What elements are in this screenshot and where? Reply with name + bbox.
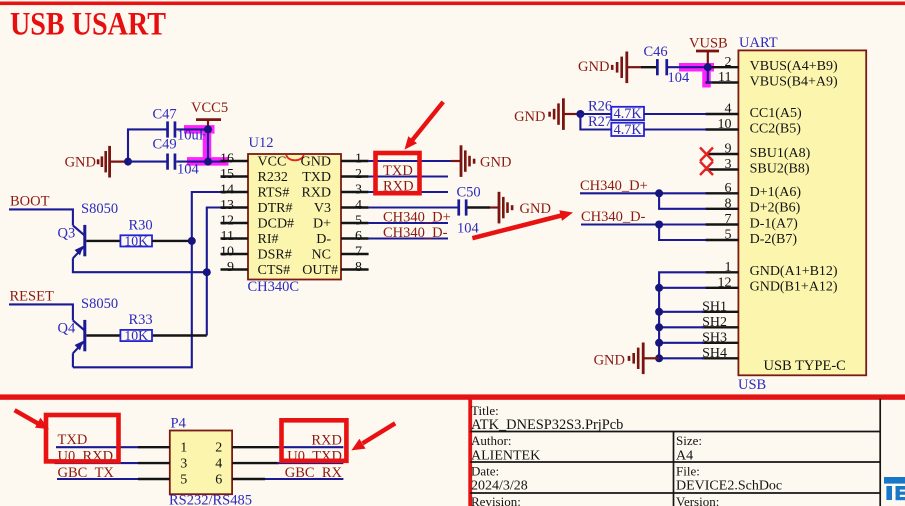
svg-text:VCC: VCC — [258, 155, 287, 170]
ground symbol right of pin1 — [451, 145, 511, 177]
wire pin13 DTR# vertical — [207, 208, 221, 336]
svg-text:4: 4 — [215, 457, 222, 472]
svg-text:DTR#: DTR# — [258, 201, 293, 216]
wire branch to pin8 — [659, 193, 706, 209]
power port VCC5 — [191, 100, 228, 129]
svg-text:DSR#: DSR# — [258, 248, 292, 263]
wire VUSB node to pin2 — [708, 66, 712, 68]
wire Q3 base to R30 — [86, 240, 120, 242]
svg-text:14: 14 — [220, 182, 234, 197]
svg-text:GND: GND — [514, 109, 545, 125]
wire RXD row right — [279, 446, 344, 448]
svg-text:D-: D- — [316, 232, 331, 247]
svg-text:10: 10 — [718, 117, 732, 132]
svg-text:104: 104 — [177, 162, 200, 178]
wire GBC_RX row right — [265, 478, 343, 480]
wire BOOT to Q3 collector — [9, 209, 73, 225]
red highlight box TXD/RXD — [376, 153, 420, 193]
wire GND to C46 — [641, 66, 657, 68]
UART pin names — [750, 59, 838, 295]
wire RESET to Q4 collector — [9, 304, 73, 320]
wire GND junction up to C47 — [128, 129, 167, 161]
svg-text:D+: D+ — [313, 217, 331, 232]
sheet border vertical red line — [468, 396, 472, 506]
svg-text:2024/3/28: 2024/3/28 — [471, 479, 528, 494]
wire pin1 GND to ground — [369, 160, 451, 162]
svg-text:11: 11 — [221, 229, 234, 244]
svg-text:Q4: Q4 — [58, 321, 76, 337]
svg-text:4: 4 — [725, 102, 732, 117]
svg-text:12: 12 — [718, 276, 732, 291]
svg-text:6: 6 — [725, 181, 732, 196]
svg-text:RESET: RESET — [10, 289, 54, 305]
svg-text:RTS#: RTS# — [258, 186, 290, 201]
svg-text:CH340_D-: CH340_D- — [581, 209, 646, 225]
title block texts — [471, 403, 719, 506]
svg-text:VBUS(B4+A9): VBUS(B4+A9) — [750, 74, 838, 89]
wire Q4 emitter — [72, 353, 74, 367]
svg-text:RS232/RS485: RS232/RS485 — [169, 493, 252, 506]
U12 right pin stubs — [341, 161, 369, 270]
svg-text:USB TYPE-C: USB TYPE-C — [764, 358, 846, 374]
svg-text:C46: C46 — [644, 44, 668, 60]
wire pin3 RXD — [369, 191, 448, 193]
wire R27 to pin10 — [644, 128, 706, 130]
wire pin4 V3 to C50 — [369, 206, 458, 208]
power port VUSB — [689, 35, 728, 67]
wire TXD row left — [56, 446, 138, 448]
wire bus to SH4 — [659, 357, 704, 359]
svg-text:10K: 10K — [124, 234, 148, 249]
node junction SH2 — [655, 323, 663, 331]
svg-text:4.7K: 4.7K — [614, 122, 643, 138]
svg-text:VBUS(A4+B9): VBUS(A4+B9) — [750, 59, 838, 74]
svg-text:4: 4 — [355, 198, 362, 213]
capacitor C50 — [457, 184, 481, 236]
U12 right pin numbers — [355, 151, 362, 274]
wire bus to SH2 — [659, 326, 704, 328]
svg-text:NC: NC — [312, 248, 331, 263]
wire pin6 CH340_D- — [369, 237, 448, 239]
wire bus to pin12 — [659, 287, 706, 289]
svg-text:R30: R30 — [129, 217, 153, 233]
svg-text:UART: UART — [739, 35, 778, 51]
svg-text:6: 6 — [215, 472, 222, 487]
svg-text:File:: File: — [676, 463, 700, 478]
node junction at GND — [124, 158, 132, 166]
svg-text:R27: R27 — [588, 114, 612, 130]
UART pin stubs — [702, 67, 738, 358]
svg-text:2: 2 — [725, 55, 732, 70]
wire VCC5 down to pin16 net — [207, 129, 209, 161]
capacitor C46 — [644, 44, 691, 86]
red arrow to right box — [351, 421, 396, 450]
transistor Q4 S8050 — [58, 296, 119, 353]
svg-text:R26: R26 — [588, 98, 612, 114]
capacitor C47 — [153, 106, 207, 143]
red highlight box RXD/U0_TXD — [282, 420, 347, 461]
svg-text:9: 9 — [227, 260, 234, 275]
P4 right pin stubs — [232, 447, 278, 479]
wire branch to pin5 — [659, 225, 706, 241]
red arrow to CH340 labels — [472, 210, 573, 240]
svg-text:10K: 10K — [124, 328, 148, 343]
resistor R30 10K — [120, 217, 152, 248]
svg-text:Author:: Author: — [471, 433, 511, 448]
wire VUSB node to pin11 — [708, 67, 712, 82]
svg-text:GND: GND — [301, 155, 331, 170]
svg-text:Version:: Version: — [676, 494, 719, 506]
resistor R33 10K — [120, 312, 152, 343]
svg-text:TXD: TXD — [302, 170, 331, 185]
svg-text:CH340_D+: CH340_D+ — [383, 210, 451, 226]
svg-text:CH340_D-: CH340_D- — [383, 225, 448, 241]
wire U0_TXD row right — [277, 462, 343, 464]
svg-text:15: 15 — [220, 167, 234, 182]
svg-text:OUT#: OUT# — [302, 263, 338, 278]
node junction SH1 — [655, 308, 663, 316]
svg-text:5: 5 — [725, 228, 732, 243]
svg-text:DCD#: DCD# — [258, 217, 295, 232]
svg-text:VUSB: VUSB — [689, 35, 728, 51]
wire C47 right plate to VCC5 node — [176, 128, 208, 130]
op IC U12 body — [248, 154, 341, 280]
svg-text:8: 8 — [355, 260, 362, 275]
svg-text:8: 8 — [725, 197, 732, 212]
wire pin5 CH340_D+ — [369, 222, 448, 224]
red arrow to left box — [14, 408, 50, 429]
svg-text:16: 16 — [220, 151, 234, 166]
svg-text:10: 10 — [220, 244, 234, 259]
wire C50 to ground — [468, 206, 491, 208]
svg-text:TXD: TXD — [383, 163, 413, 179]
svg-text:BOOT: BOOT — [10, 194, 50, 210]
svg-text:D+2(B6): D+2(B6) — [750, 201, 801, 216]
P4 left pin stubs — [138, 447, 170, 479]
U12 right pin names — [301, 155, 338, 279]
svg-text:ATK_DNESP32S3.PrjPcb: ATK_DNESP32S3.PrjPcb — [471, 417, 623, 433]
svg-text:SH1: SH1 — [702, 300, 727, 315]
svg-text:SH4: SH4 — [702, 346, 727, 361]
connector UART body — [738, 50, 866, 375]
svg-text:7: 7 — [725, 212, 732, 227]
svg-text:C47: C47 — [153, 106, 177, 122]
svg-text:RI#: RI# — [258, 232, 279, 247]
wire R33 to DTR# vertical — [152, 334, 207, 336]
svg-text:6: 6 — [355, 229, 362, 244]
transistor Q3 S8050 — [58, 201, 119, 258]
wire junction to R26 — [580, 113, 611, 115]
wire junction down to R27 — [580, 114, 611, 130]
svg-text:CH340C: CH340C — [248, 279, 300, 295]
svg-text:SBU1(A8): SBU1(A8) — [750, 146, 811, 161]
wire pin14 RTS# vertical — [73, 192, 221, 367]
node junction SH3 — [655, 339, 663, 347]
GND symbol near R26 — [514, 98, 580, 130]
svg-text:3: 3 — [725, 157, 732, 172]
svg-text:3: 3 — [180, 457, 187, 472]
svg-text:D-2(B7): D-2(B7) — [750, 232, 798, 247]
title block grid lines — [470, 399, 881, 506]
svg-text:12: 12 — [220, 213, 234, 228]
svg-text:S8050: S8050 — [81, 296, 118, 312]
svg-text:GND(A1+B12): GND(A1+B12) — [750, 264, 838, 279]
magenta highlight VCC5 net — [184, 126, 229, 163]
svg-text:7: 7 — [355, 244, 362, 259]
svg-text:D-1(A7): D-1(A7) — [750, 216, 799, 231]
svg-text:5: 5 — [180, 472, 187, 487]
UART pin numbers — [718, 55, 732, 291]
svg-text:11: 11 — [718, 70, 731, 85]
node junction VUSB — [704, 63, 712, 71]
wire CH340_D- to pin7 — [581, 223, 706, 225]
magenta highlight VUSB net — [679, 63, 714, 88]
resistor R26 4.7K — [588, 98, 644, 122]
svg-text:3: 3 — [355, 182, 362, 197]
wire R26 to pin4 — [644, 113, 706, 115]
svg-text:ALIENTEK: ALIENTEK — [471, 448, 540, 463]
ALIENTEK logo fragment — [884, 477, 905, 500]
svg-text:Revision:: Revision: — [471, 494, 521, 506]
UART shield pin labels SH1-SH4 — [702, 300, 727, 362]
svg-text:5: 5 — [355, 213, 362, 228]
svg-text:104: 104 — [457, 220, 480, 236]
ground symbol right of C50 — [490, 192, 551, 224]
svg-text:TXD: TXD — [58, 432, 88, 448]
wire GND junction to C49 — [128, 161, 167, 163]
svg-text:SH2: SH2 — [702, 315, 727, 330]
wire R30 to RTS# vertical — [152, 240, 192, 242]
connector P4 body — [170, 431, 232, 495]
GND symbol near SH4 — [594, 343, 660, 375]
svg-text:C50: C50 — [457, 184, 481, 200]
wire bus to SH1 — [659, 311, 704, 313]
svg-text:13: 13 — [220, 198, 234, 213]
red highlight box TXD/U0_RXD — [46, 415, 119, 461]
node junction VCC5/C47 — [204, 125, 212, 133]
svg-text:D+1(A6): D+1(A6) — [750, 185, 802, 200]
svg-text:GND: GND — [65, 155, 96, 171]
wire GBC_TX row left — [57, 478, 138, 480]
svg-text:GND: GND — [520, 201, 551, 217]
U12 left pin names — [258, 155, 295, 279]
node junction R30/RTS — [188, 237, 196, 245]
svg-text:SBU2(B8): SBU2(B8) — [750, 161, 810, 176]
svg-text:CC1(A5): CC1(A5) — [750, 106, 802, 121]
wire bus to SH3 — [659, 342, 704, 344]
svg-text:104: 104 — [668, 70, 691, 86]
svg-text:GND: GND — [480, 154, 511, 170]
svg-text:GND: GND — [578, 59, 609, 75]
svg-text:U12: U12 — [249, 135, 274, 151]
U12 left pin numbers — [220, 151, 234, 274]
wire pin2 TXD — [369, 175, 448, 177]
svg-text:SH3: SH3 — [702, 331, 727, 346]
node junction VCC5/pin16 — [204, 158, 212, 166]
node junction D- — [655, 221, 663, 229]
wire C49 right plate to chip pin 16 — [176, 161, 221, 163]
wire U0_RXD row left — [55, 462, 139, 464]
svg-text:S8050: S8050 — [81, 201, 118, 217]
wire CH340_D+ to pin6 — [580, 192, 706, 194]
GND symbol near C46 — [578, 52, 641, 84]
svg-text:A4: A4 — [676, 448, 693, 463]
svg-text:9: 9 — [725, 142, 732, 157]
svg-text:CTS#: CTS# — [258, 263, 291, 278]
no-connect X pin 9 — [700, 148, 713, 162]
svg-text:R33: R33 — [129, 312, 153, 328]
node junction R26/R27 — [576, 110, 584, 118]
node junction Q3 emitter/DTR — [203, 268, 211, 276]
svg-text:2: 2 — [215, 441, 222, 456]
wire Q3 emitter — [73, 258, 207, 272]
red arrow to TXD box — [405, 101, 445, 150]
svg-text:USB USART: USB USART — [10, 7, 166, 43]
capacitor C49 — [153, 137, 200, 178]
svg-text:GND: GND — [594, 353, 625, 369]
node junction SH4 — [655, 354, 663, 362]
svg-text:R232: R232 — [258, 170, 288, 185]
wire Q4 base to R33 — [86, 334, 120, 336]
svg-text:Title:: Title: — [471, 403, 499, 418]
svg-text:1: 1 — [355, 151, 362, 166]
svg-text:1: 1 — [180, 441, 187, 456]
node junction pin12 — [655, 284, 663, 292]
svg-text:RXD: RXD — [301, 186, 331, 201]
svg-text:2: 2 — [355, 167, 362, 182]
svg-text:VCC5: VCC5 — [191, 100, 228, 116]
U12 left pin stubs — [221, 161, 249, 270]
resistor R27 4.7K — [588, 114, 644, 138]
svg-text:Q3: Q3 — [58, 226, 76, 242]
U12 notch arc — [286, 155, 303, 161]
wire pin1 GND bus — [659, 272, 706, 358]
svg-text:Date:: Date: — [471, 463, 499, 478]
svg-text:P4: P4 — [171, 416, 187, 432]
svg-text:C49: C49 — [153, 137, 177, 153]
P4 pin numbers — [180, 441, 222, 488]
svg-text:GND(B1+A12): GND(B1+A12) — [750, 280, 838, 295]
svg-text:CC2(B5): CC2(B5) — [750, 121, 802, 136]
svg-text:Size:: Size: — [676, 433, 702, 448]
wire C46 to VUSB node — [668, 66, 708, 68]
sheet border top red line — [0, 2, 905, 6]
sheet border bottom red line — [0, 394, 905, 399]
svg-text:4.7K: 4.7K — [614, 106, 643, 122]
svg-text:V3: V3 — [314, 201, 331, 216]
GND symbol left of C49 — [65, 146, 128, 178]
svg-text:CH340_D+: CH340_D+ — [580, 178, 648, 194]
svg-text:1: 1 — [725, 260, 732, 275]
no-connect X pin 3 — [700, 162, 713, 176]
svg-text:USB: USB — [738, 377, 766, 393]
svg-text:DEVICE2.SchDoc: DEVICE2.SchDoc — [676, 479, 782, 494]
node junction D+ — [655, 189, 663, 197]
